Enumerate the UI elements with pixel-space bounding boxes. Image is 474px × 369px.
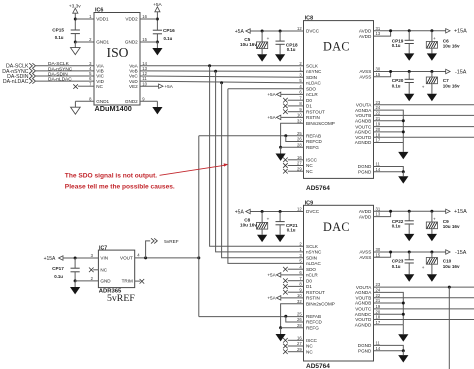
svg-text:0.1u: 0.1u bbox=[287, 47, 296, 52]
node C10 junction bbox=[430, 251, 433, 254]
svg-text:RSTOUT: RSTOUT bbox=[306, 290, 325, 295]
power port +15A IC8 bbox=[446, 29, 467, 35]
node C9 junction bbox=[430, 210, 433, 213]
capacitor C9 bbox=[426, 211, 460, 229]
IC6 pin names bbox=[96, 17, 138, 104]
svg-text:17: 17 bbox=[376, 138, 381, 143]
annotation arrow red bbox=[160, 163, 229, 175]
wire IC9 AGNDD bbox=[374, 324, 404, 326]
svg-text:12: 12 bbox=[297, 207, 302, 212]
svg-text:30: 30 bbox=[376, 247, 381, 252]
svg-text:CP16: CP16 bbox=[163, 28, 175, 33]
ground (analog, filled) bbox=[398, 351, 408, 363]
svg-text:31: 31 bbox=[376, 206, 381, 211]
no-connect IC9 D1 bbox=[283, 284, 303, 289]
svg-text:AVDD: AVDD bbox=[359, 34, 372, 39]
node IC9 REFAB junction bbox=[284, 315, 287, 318]
svg-text:30: 30 bbox=[376, 67, 381, 72]
svg-text:CP23: CP23 bbox=[392, 259, 404, 264]
ground (analog, filled) bbox=[398, 325, 408, 342]
wire IC9 VOUTD bbox=[374, 319, 474, 321]
svg-text:10u 16v: 10u 16v bbox=[443, 264, 460, 269]
svg-text:12: 12 bbox=[297, 26, 302, 31]
off-page port 5vREF bbox=[146, 238, 179, 258]
capacitor CP23 bbox=[392, 252, 414, 269]
node C6 junction bbox=[430, 29, 433, 32]
wire nSYNC bus bbox=[140, 70, 304, 73]
capacitor CP17 bbox=[52, 266, 80, 279]
wire DA-SCLK bbox=[36, 65, 94, 67]
svg-text:nLDAC: nLDAC bbox=[306, 261, 321, 266]
svg-text:SDO: SDO bbox=[306, 86, 316, 91]
wire DA-nLDAC bbox=[36, 80, 94, 82]
node IC9 VOUTA branch bbox=[448, 286, 451, 289]
svg-text:VOUTD: VOUTD bbox=[355, 135, 372, 140]
ground (analog, filled) bbox=[398, 143, 408, 160]
svg-text:28: 28 bbox=[297, 142, 302, 147]
node GND1 junction bbox=[74, 41, 77, 44]
no-connect IC8 D0 bbox=[283, 98, 303, 103]
wire IC8 AGNDC bbox=[374, 131, 404, 133]
svg-text:ISO: ISO bbox=[107, 45, 129, 60]
wire IC8 DGND bbox=[374, 167, 404, 172]
capacitor C5 bbox=[240, 31, 270, 49]
svg-text:REFAB: REFAB bbox=[306, 314, 321, 319]
svg-text:TRIM: TRIM bbox=[122, 279, 133, 284]
ground (analog, filled) bbox=[276, 147, 286, 161]
wire IC8 PGND bbox=[374, 171, 404, 173]
IC7 pin numbers bbox=[91, 253, 141, 281]
wire SDIN bus bbox=[140, 76, 304, 77]
svg-text:16: 16 bbox=[297, 335, 302, 340]
power port -15A IC9 bbox=[446, 250, 467, 256]
svg-text:GND1: GND1 bbox=[96, 99, 109, 104]
ground (analog, filled) bbox=[427, 229, 437, 242]
svg-text:22: 22 bbox=[376, 111, 381, 116]
svg-text:14: 14 bbox=[376, 167, 381, 172]
svg-text:14: 14 bbox=[376, 346, 381, 351]
IC9 right pin numbers bbox=[376, 206, 381, 350]
svg-text:10u 16v: 10u 16v bbox=[443, 224, 460, 229]
dac IC9 AD5764 box bbox=[304, 200, 374, 361]
svg-text:IC9: IC9 bbox=[305, 200, 313, 206]
wire CP17 rail bbox=[74, 258, 76, 281]
ground (analog, filled) bbox=[257, 49, 267, 62]
node IC8 AGNDB junction bbox=[402, 119, 405, 122]
svg-text:D1: D1 bbox=[306, 284, 312, 289]
svg-text:21: 21 bbox=[376, 298, 381, 303]
node nSYNC branch bbox=[214, 70, 217, 73]
IC8 left pin names bbox=[306, 29, 335, 174]
svg-text:AVSS: AVSS bbox=[359, 69, 371, 74]
wire IC8 AVSS rail bbox=[374, 71, 446, 73]
IC8 left pin numbers bbox=[297, 26, 302, 171]
wire IC9 REFG bbox=[281, 327, 304, 329]
svg-text:AGNDA: AGNDA bbox=[355, 108, 372, 113]
label ADuM1400 bbox=[95, 104, 132, 113]
svg-text:22: 22 bbox=[376, 293, 381, 298]
svg-text:D0: D0 bbox=[306, 278, 312, 283]
IC8 right pin names bbox=[355, 29, 373, 175]
wire 5vREF to IC8 REFAB bbox=[199, 135, 304, 137]
svg-text:VOUTA: VOUTA bbox=[356, 285, 372, 290]
wire IC8 AGNDB bbox=[374, 120, 404, 122]
svg-text:VDD1: VDD1 bbox=[96, 17, 109, 22]
svg-text:AGNDC: AGNDC bbox=[355, 312, 372, 317]
svg-text:D1: D1 bbox=[306, 104, 312, 109]
label DAC IC8 bbox=[323, 39, 350, 53]
svg-text:D0: D0 bbox=[306, 98, 312, 103]
svg-text:0.1u: 0.1u bbox=[392, 83, 401, 88]
svg-text:29: 29 bbox=[297, 166, 302, 171]
capacitor C8 bbox=[240, 212, 270, 230]
svg-text:AVSS: AVSS bbox=[359, 255, 371, 260]
svg-text:5vREF: 5vREF bbox=[164, 239, 178, 244]
capacitor C10 bbox=[422, 252, 460, 270]
wire IC8 AGNDD bbox=[374, 142, 404, 144]
no-connect pin 7 bbox=[73, 84, 94, 89]
wire IC8 AVSS pin15 bbox=[374, 72, 391, 77]
svg-text:IC7: IC7 bbox=[99, 245, 107, 251]
svg-text:NC: NC bbox=[96, 84, 103, 89]
spare IC8 bbox=[0, 0, 1, 1]
svg-text:REFCD: REFCD bbox=[306, 139, 323, 144]
svg-text:AGNDC: AGNDC bbox=[355, 130, 372, 135]
node IC9 PGND junction bbox=[402, 349, 405, 352]
isolator IC6 ADuM1400 box bbox=[94, 7, 140, 105]
svg-text:18: 18 bbox=[376, 315, 381, 320]
svg-text:nCLR: nCLR bbox=[306, 273, 318, 278]
svg-text:SCLK: SCLK bbox=[306, 244, 319, 249]
wire VDD2 rail bbox=[156, 19, 158, 42]
svg-text:32: 32 bbox=[297, 299, 302, 304]
power port +5A at IC8 nCLR bbox=[267, 92, 303, 97]
svg-text:C7: C7 bbox=[443, 78, 449, 83]
svg-text:23: 23 bbox=[376, 282, 381, 287]
power port +5A at IC8 RSTIN bbox=[267, 115, 303, 120]
power port +5A at IC9 nCLR bbox=[267, 273, 303, 278]
svg-text:+: + bbox=[422, 84, 425, 89]
svg-text:+5A: +5A bbox=[165, 84, 174, 89]
svg-text:nLDAC: nLDAC bbox=[306, 81, 321, 86]
svg-text:17: 17 bbox=[376, 320, 381, 325]
no-connect IC9 NC27 bbox=[283, 344, 303, 349]
svg-text:GND2: GND2 bbox=[125, 99, 138, 104]
svg-text:10: 10 bbox=[297, 293, 302, 298]
svg-text:VOUTA: VOUTA bbox=[356, 103, 372, 108]
svg-text:26: 26 bbox=[297, 317, 302, 322]
wire 5vREF to IC9 REFAB bbox=[199, 316, 304, 318]
no-connect IC9 NC29 bbox=[283, 349, 303, 354]
node IC9 AGNDB junction bbox=[402, 302, 405, 305]
power +3.3v bbox=[69, 3, 81, 19]
node SCLK branch bbox=[208, 64, 211, 67]
svg-text:AGNDA: AGNDA bbox=[355, 290, 372, 295]
IC9 right pin names bbox=[355, 209, 373, 353]
svg-text:CP17: CP17 bbox=[52, 266, 64, 271]
svg-text:VOUTB: VOUTB bbox=[355, 113, 371, 118]
power port +5A at IC8 DVCC bbox=[235, 29, 304, 35]
svg-text:16: 16 bbox=[142, 14, 147, 19]
svg-text:DAC: DAC bbox=[323, 220, 350, 234]
svg-text:+15A: +15A bbox=[454, 209, 467, 215]
svg-text:10u 16v: 10u 16v bbox=[443, 43, 460, 48]
wire IC9 VOUTA bbox=[374, 286, 474, 288]
wire IC8 AGNDA bbox=[374, 110, 404, 142]
net label DA-SDIN bbox=[48, 71, 68, 77]
no-connect IC8 RSTOUT bbox=[283, 109, 303, 114]
capacitor CP15 bbox=[52, 28, 80, 40]
wire IC9 AGNDB bbox=[374, 302, 404, 304]
svg-text:NC: NC bbox=[100, 267, 107, 272]
wire GND pin2 bbox=[75, 280, 98, 282]
svg-text:NC: NC bbox=[306, 349, 313, 354]
svg-text:19: 19 bbox=[376, 304, 381, 309]
no-connect IC8 ISCC bbox=[283, 158, 303, 163]
wire SCLK riser bbox=[210, 66, 304, 247]
svg-text:0.1u: 0.1u bbox=[54, 274, 63, 279]
svg-text:AGNDD: AGNDD bbox=[355, 140, 372, 145]
capacitor CP20 bbox=[392, 72, 414, 89]
svg-text:11: 11 bbox=[376, 162, 381, 167]
svg-text:BINn2sCOMP: BINn2sCOMP bbox=[306, 121, 335, 126]
svg-text:PGND: PGND bbox=[358, 170, 372, 175]
wire DA-nSYNC bbox=[36, 70, 94, 72]
label 5vREF bbox=[107, 293, 135, 304]
wire IC9 AVDD pin13 bbox=[374, 211, 391, 216]
svg-text:0.1u: 0.1u bbox=[392, 264, 401, 269]
ground (digital, open) bbox=[71, 107, 81, 114]
ground (analog, filled) bbox=[398, 172, 408, 184]
svg-text:19: 19 bbox=[376, 122, 381, 127]
ground (analog, filled) bbox=[427, 84, 437, 102]
wire nSYNC riser bbox=[216, 71, 304, 252]
capacitor C6 bbox=[426, 31, 460, 49]
power port +5A at IC9 DVCC bbox=[235, 209, 304, 215]
off-page port DA-nSYNC bbox=[2, 68, 35, 75]
no-connect IC8 D1 bbox=[283, 104, 303, 109]
ground (analog, filled) bbox=[427, 48, 437, 61]
svg-text:25: 25 bbox=[297, 131, 302, 136]
ground (analog, filled) bbox=[404, 263, 414, 282]
wire IC8 AVDD pin13 bbox=[374, 31, 391, 36]
svg-text:DA-SDIN: DA-SDIN bbox=[48, 71, 68, 77]
wire GND2 pin9 bbox=[140, 101, 157, 107]
node C-IC8b junction bbox=[279, 30, 282, 33]
svg-text:0.1u: 0.1u bbox=[55, 35, 64, 40]
svg-text:16: 16 bbox=[297, 155, 302, 160]
wire GND1 pin8 bbox=[75, 101, 94, 107]
label ADR365 bbox=[99, 289, 122, 295]
node GND junction bbox=[74, 279, 77, 282]
svg-text:VOUTC: VOUTC bbox=[355, 307, 372, 312]
svg-text:RSTOUT: RSTOUT bbox=[306, 109, 325, 114]
svg-text:nSYNC: nSYNC bbox=[306, 250, 322, 255]
capacitor CP16 bbox=[153, 28, 175, 41]
node IC9 REFG junction bbox=[279, 326, 282, 329]
svg-text:20: 20 bbox=[376, 127, 381, 132]
ground (analog, filled) bbox=[70, 281, 80, 295]
wire SCLK bus bbox=[140, 65, 304, 67]
svg-text:DVCC: DVCC bbox=[306, 29, 320, 34]
node C-IC8a junction bbox=[261, 30, 264, 33]
svg-text:31: 31 bbox=[376, 26, 381, 31]
wire IC9 AGNDC bbox=[374, 313, 404, 315]
svg-text:13: 13 bbox=[376, 31, 381, 36]
svg-text:RSTIN: RSTIN bbox=[306, 115, 320, 120]
net label DA-nLDAC bbox=[48, 77, 72, 83]
svg-text:VOUT: VOUT bbox=[120, 256, 133, 261]
node CP19 junction bbox=[408, 29, 411, 32]
ground (analog, filled) bbox=[257, 229, 267, 242]
capacitor CP19 bbox=[392, 31, 414, 48]
svg-text:+5A: +5A bbox=[267, 92, 276, 97]
svg-text:AVDD: AVDD bbox=[359, 214, 372, 219]
IC9 left pin names bbox=[306, 209, 335, 354]
wire VDD1 pin1 bbox=[75, 18, 94, 20]
svg-text:nSYNC: nSYNC bbox=[306, 69, 322, 74]
svg-text:29: 29 bbox=[297, 347, 302, 352]
svg-text:24: 24 bbox=[376, 105, 381, 110]
ground (analog, filled) bbox=[404, 44, 414, 61]
wire IC8 BINn2sCOMP bbox=[281, 123, 304, 147]
node nLDAC branch bbox=[220, 81, 223, 84]
capacitor CP21 bbox=[276, 212, 299, 233]
svg-text:VOUTD: VOUTD bbox=[355, 317, 372, 322]
svg-text:+: + bbox=[267, 36, 270, 41]
svg-text:SDIN: SDIN bbox=[306, 255, 317, 260]
svg-text:AVSS: AVSS bbox=[359, 75, 371, 80]
capacitor CP18 bbox=[276, 31, 299, 52]
wire IC9 BINn2sCOMP bbox=[281, 304, 304, 328]
svg-text:10: 10 bbox=[142, 81, 147, 86]
svg-text:+5A: +5A bbox=[235, 209, 245, 215]
node GND2 junction bbox=[156, 41, 159, 44]
node IC9 AVDD junction bbox=[389, 210, 392, 213]
svg-text:0.1u: 0.1u bbox=[287, 228, 296, 233]
power port +5A at IC9 RSTIN bbox=[267, 296, 303, 301]
svg-text:SCLK: SCLK bbox=[306, 64, 319, 69]
svg-text:32: 32 bbox=[297, 118, 302, 123]
no-connect IC9 SDO bbox=[283, 267, 303, 272]
svg-text:13: 13 bbox=[376, 212, 381, 217]
svg-text:15: 15 bbox=[376, 72, 381, 77]
wire 5vREF riser bbox=[198, 136, 200, 317]
svg-text:CP15: CP15 bbox=[52, 28, 64, 33]
ground (analog, filled) bbox=[152, 107, 162, 114]
svg-text:10u 16v: 10u 16v bbox=[240, 42, 257, 47]
svg-text:DGND: DGND bbox=[358, 164, 372, 169]
svg-text:26: 26 bbox=[297, 137, 302, 142]
annotation text red bbox=[65, 172, 175, 190]
wire IC9 PGND bbox=[374, 350, 404, 352]
node IC8 PGND junction bbox=[402, 170, 405, 173]
svg-text:+15A: +15A bbox=[454, 29, 467, 35]
node IC8 REFAB junction bbox=[284, 134, 287, 137]
no-connect IC9 ISCC bbox=[283, 338, 303, 343]
svg-text:+15A: +15A bbox=[44, 256, 56, 262]
node IC8 AGNDC junction bbox=[402, 130, 405, 133]
svg-text:+5A: +5A bbox=[267, 296, 276, 301]
node IC8 AVDD junction bbox=[389, 29, 392, 32]
svg-text:VDD2: VDD2 bbox=[125, 17, 138, 22]
svg-text:+: + bbox=[433, 36, 436, 41]
node 5vREF offpage branch bbox=[144, 256, 147, 259]
svg-text:0.1u: 0.1u bbox=[392, 224, 401, 229]
svg-text:NC: NC bbox=[306, 169, 313, 174]
ground (digital, open) bbox=[71, 42, 81, 55]
svg-text:BINn2sCOMP: BINn2sCOMP bbox=[306, 301, 335, 306]
svg-text:25: 25 bbox=[297, 311, 302, 316]
svg-text:VE2: VE2 bbox=[129, 84, 138, 89]
svg-text:18: 18 bbox=[376, 132, 381, 137]
ground (analog, filled) bbox=[404, 83, 414, 102]
svg-text:+: + bbox=[422, 265, 425, 270]
node VIN junction bbox=[74, 257, 77, 260]
node IC8 REFG junction bbox=[279, 146, 282, 149]
svg-text:20: 20 bbox=[376, 309, 381, 314]
label DAC IC9 bbox=[323, 220, 350, 234]
svg-text:AGNDD: AGNDD bbox=[355, 323, 372, 328]
wire IC8 AVDD rail bbox=[374, 30, 446, 32]
svg-text:SDO: SDO bbox=[306, 267, 316, 272]
svg-text:21: 21 bbox=[376, 116, 381, 121]
label ISO bbox=[107, 45, 129, 60]
svg-text:5vREF: 5vREF bbox=[107, 293, 135, 304]
wire GND1 pin2 bbox=[75, 41, 94, 43]
svg-text:0.1u: 0.1u bbox=[164, 36, 173, 41]
wire IC8 VOUTB bbox=[374, 114, 474, 116]
svg-text:0.1u: 0.1u bbox=[392, 43, 401, 48]
svg-text:+5A: +5A bbox=[235, 29, 245, 35]
svg-text:The SDO signal is not output.: The SDO signal is not output. bbox=[65, 172, 157, 179]
wire nLDAC bus bbox=[140, 81, 304, 83]
wire VOUT 5vREF bbox=[135, 257, 199, 259]
vref IC7 ADR365 box bbox=[98, 245, 134, 287]
svg-text:11: 11 bbox=[376, 341, 381, 346]
wire IC9 AVDD rail bbox=[374, 210, 446, 212]
no-connect IC7 NC bbox=[89, 268, 98, 273]
wire GND2 pin15 bbox=[140, 41, 157, 43]
svg-text:23: 23 bbox=[376, 100, 381, 105]
ground (analog, filled) bbox=[427, 264, 437, 282]
wire SDO riser to IC9 nLDAC bbox=[228, 89, 304, 264]
wire SDO of IC8 bbox=[228, 88, 304, 90]
off-page port DA-SCLK bbox=[6, 63, 36, 69]
svg-text:27: 27 bbox=[297, 161, 302, 166]
node VDD1 junction bbox=[74, 18, 77, 21]
IC9 left pin numbers bbox=[297, 207, 302, 352]
off-page port DA-nLDAC bbox=[3, 79, 36, 86]
svg-text:RSTIN: RSTIN bbox=[306, 296, 320, 301]
svg-text:ISCC: ISCC bbox=[306, 338, 318, 343]
ground (analog, filled) bbox=[152, 42, 162, 55]
dac IC8 AD5764 box bbox=[304, 16, 374, 179]
svg-text:CP20: CP20 bbox=[392, 78, 404, 83]
svg-text:+5A: +5A bbox=[267, 115, 276, 120]
svg-text:10u 16v: 10u 16v bbox=[443, 83, 460, 88]
svg-text:DA-SCLK: DA-SCLK bbox=[48, 61, 70, 67]
wire IC9 REFCD staple bbox=[286, 316, 304, 322]
node IC8 AVSS junction bbox=[389, 70, 392, 73]
svg-text:NC: NC bbox=[306, 344, 313, 349]
svg-text:+: + bbox=[267, 217, 270, 222]
svg-text:AVDD: AVDD bbox=[359, 209, 372, 214]
off-page port DA-SDIN bbox=[7, 73, 35, 80]
svg-text:10u 16v: 10u 16v bbox=[240, 223, 257, 228]
wire IC9 VOUTB bbox=[374, 297, 474, 299]
node C-IC9a junction bbox=[261, 210, 264, 213]
